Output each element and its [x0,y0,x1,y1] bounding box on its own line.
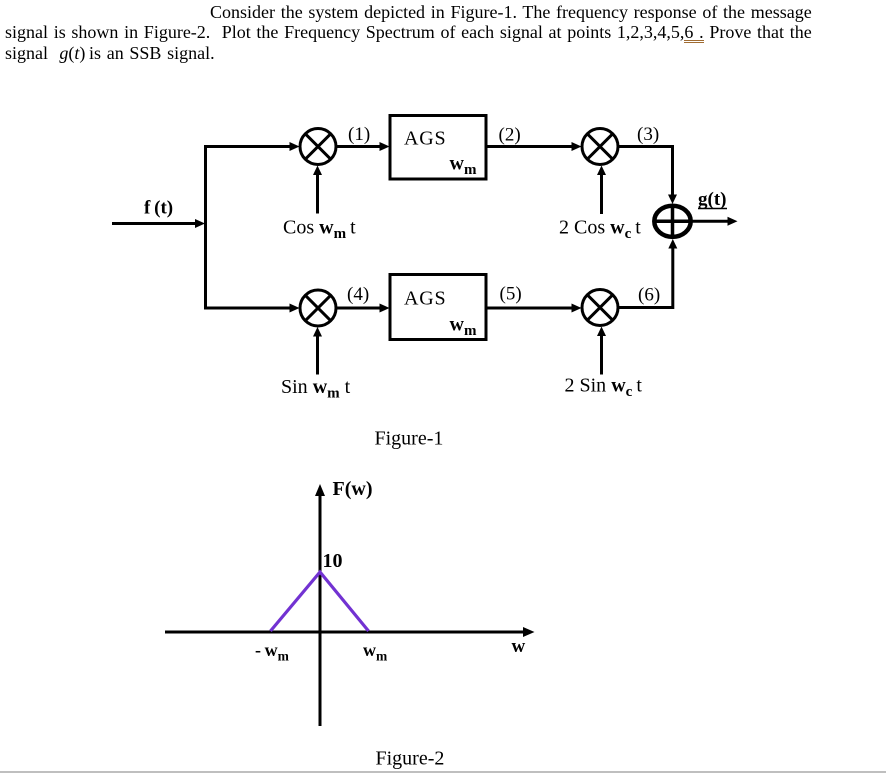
wire: 2 Sin carrier arrow into M4 [597,327,606,375]
svg-text:2 Sin wc t: 2 Sin wc t [565,375,643,401]
svg-text:Figure-1: Figure-1 [375,428,444,450]
summer S1 [654,206,690,237]
svg-text:wm: wm [363,640,388,664]
wire: input f(t) arrow [112,219,205,228]
wire: summer output arrow [691,217,738,226]
axis: F(w) vertical [315,484,325,726]
multiplier M3 [300,290,336,326]
paragraph line 2 [5,22,812,43]
paragraph line 1 [210,2,812,23]
svg-text:f (t): f (t) [144,198,173,219]
wire: M2 to summer (corner) [618,147,677,205]
wire: 2 Cos carrier arrow into M2 [597,166,606,215]
svg-text:Cos wm t: Cos wm t [283,217,356,243]
axis: w horizontal [165,627,535,637]
svg-text:(3): (3) [637,124,659,145]
label g(t) [698,189,727,210]
wire: junction to multiplier M1 [204,142,300,151]
multiplier M2 [582,129,618,165]
svg-text:F(w): F(w) [333,478,373,500]
svg-text:(2): (2) [499,125,521,146]
wire: Sin carrier arrow into M3 [313,327,322,375]
wire: branch junction vertical [204,145,207,310]
svg-text:- wm: - wm [255,640,290,664]
divider line bottom [0,771,886,773]
svg-text:(6): (6) [638,285,660,306]
AGS block 1 [390,116,486,180]
wire: AGS 2 to multiplier M4 [487,304,582,313]
wire: M3 to AGS block 2 [336,304,390,313]
svg-text:Figure-2: Figure-2 [376,748,445,770]
spectrum triangle [271,572,369,631]
multiplier M4 [582,290,618,326]
svg-text:(5): (5) [500,284,522,305]
wire: junction to multiplier M3 [204,304,300,313]
wire: Cos carrier arrow into M1 [313,166,322,214]
AGS block 2 [390,275,486,340]
paragraph line 3 [5,43,215,64]
wire: AGS 1 to multiplier M2 [487,142,582,151]
svg-text:w: w [512,636,526,657]
multiplier M1 [300,129,336,165]
wire: M4 to summer (corner) [618,239,677,308]
wire: M1 to AGS block 1 [336,142,390,151]
svg-text:g(t): g(t) [698,189,726,210]
svg-text:Sin wm t: Sin wm t [281,376,351,402]
svg-text:AGS: AGS [404,128,446,150]
svg-text:(4): (4) [347,284,369,305]
svg-text:AGS: AGS [404,288,446,310]
svg-text:(1): (1) [348,124,370,145]
svg-text:2 Cos wc t: 2 Cos wc t [559,217,641,243]
svg-text:10: 10 [323,550,343,572]
